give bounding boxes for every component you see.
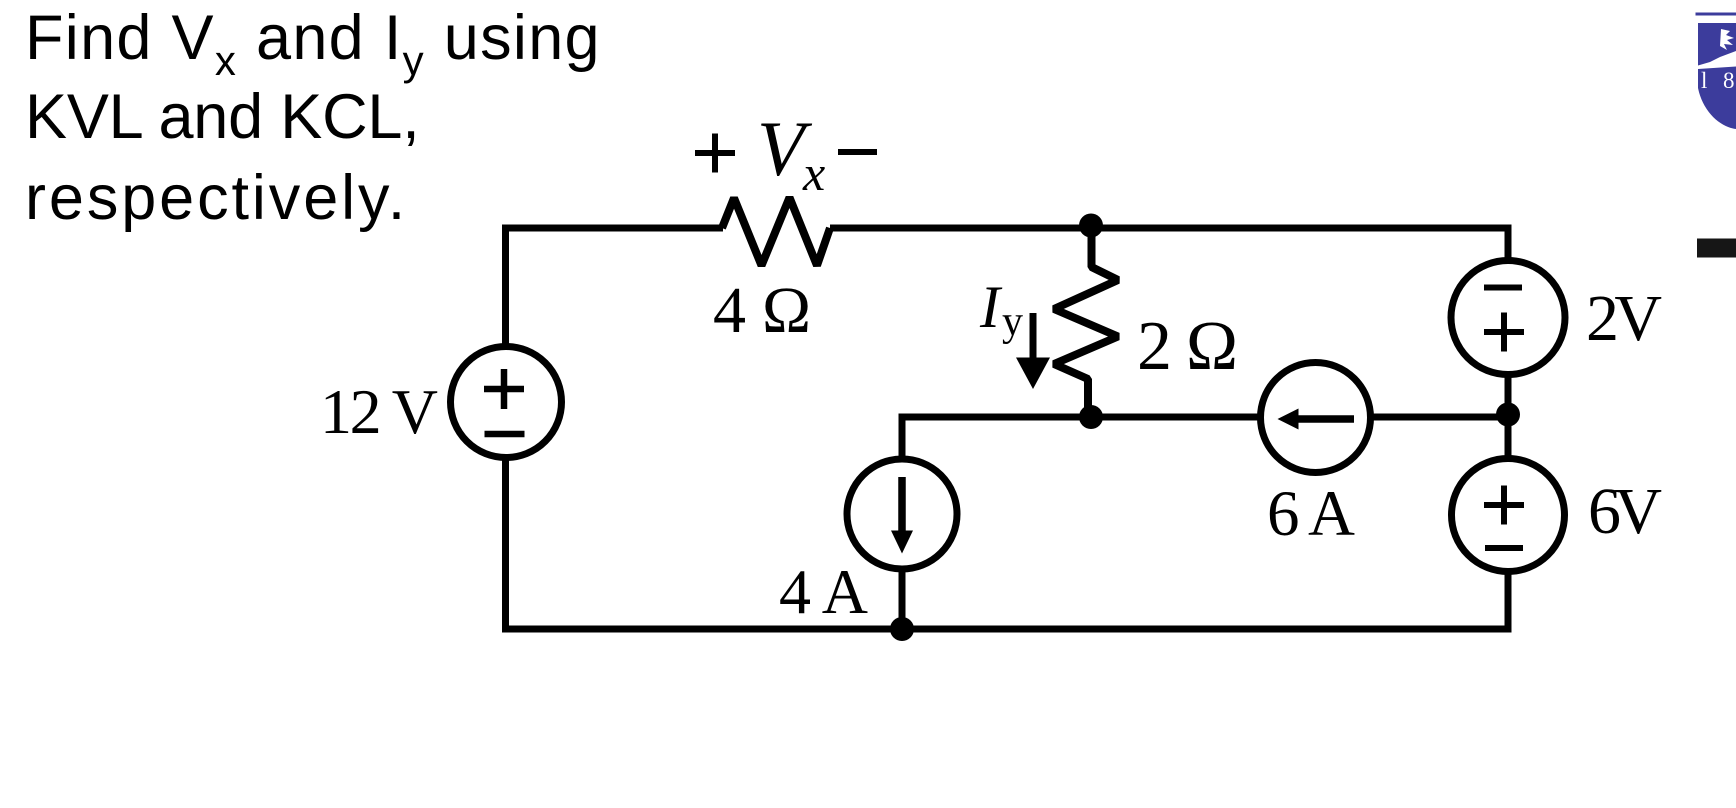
logo: shield bird mark (1720, 29, 1734, 50)
V3 minus symbol (1485, 545, 1523, 551)
wire: top horizontal, right segment (from resistor R1 to top-right corner) (830, 225, 1508, 232)
svg-text:2 Ω: 2 Ω (1137, 308, 1238, 385)
node: bottom of 4A branch (890, 617, 914, 641)
svg-text:6V: 6V (1588, 475, 1662, 548)
logo: shield upper field (1698, 23, 1736, 66)
title text (25, 3, 601, 233)
svg-text:6 A: 6 A (1267, 478, 1355, 550)
label - (Vx polarity) (838, 149, 877, 155)
V2 plus symbol (1484, 313, 1524, 352)
logo: thin blue rule (1696, 13, 1736, 16)
svg-text:12 V: 12 V (320, 376, 438, 447)
node A (top of 2 ohm) (1079, 214, 1103, 238)
V1 plus symbol (484, 369, 524, 409)
label + (Vx polarity) (695, 134, 735, 173)
wire: bottom horizontal (502, 626, 1512, 633)
voltage source V3 6V (circle) (1452, 459, 1565, 572)
arrow Iy (down) (1030, 313, 1037, 360)
wire: middle horizontal (node B to right node, through 6A source) (901, 414, 1509, 421)
logo: shield lower field (1698, 67, 1736, 130)
svg-text:I: I (979, 274, 1003, 340)
svg-text:4 A: 4 A (779, 556, 868, 627)
svg-text:4 Ω: 4 Ω (713, 274, 811, 347)
V1 minus symbol (485, 431, 525, 438)
voltage source V1 12V (circle) (451, 347, 562, 458)
node B (bottom of 2 ohm) (1079, 405, 1103, 429)
voltage source V2 2V (circle) (1451, 261, 1565, 375)
resistor R2 2 ohm (vertical zigzag) (1054, 221, 1118, 420)
wire: 4A branch vertical (899, 414, 906, 630)
current source I1 4A (circle) (847, 459, 957, 569)
svg-text:8: 8 (1723, 68, 1735, 93)
V2 minus symbol (top) (1484, 285, 1522, 291)
wire: left vertical branch (through 12V source) (502, 225, 509, 633)
V3 plus symbol (top) (1484, 486, 1524, 525)
svg-text:y: y (1002, 299, 1023, 345)
resistor R1 4 ohm (horizontal zigzag) (722, 198, 830, 266)
svg-text:KVL and KCL,: KVL and KCL, (25, 82, 420, 152)
node: between 2V and 6V (1496, 403, 1520, 427)
current source I2 6A (circle) (1261, 363, 1371, 473)
black bar (1697, 239, 1736, 258)
I1 arrow (down) (898, 477, 906, 533)
wire: right vertical branch (through 2V and 6V sources) (1505, 225, 1512, 633)
svg-text:2V: 2V (1586, 282, 1662, 355)
I2 arrow (left) (1297, 415, 1354, 423)
svg-text:respectively.: respectively. (25, 163, 408, 233)
svg-text:l: l (1701, 68, 1707, 93)
wire: top horizontal, left segment (from top-left corner to resistor R1) (502, 225, 723, 232)
svg-text:Find Vx and Iy using: Find Vx and Iy using (25, 3, 601, 84)
svg-text:x: x (802, 145, 825, 201)
